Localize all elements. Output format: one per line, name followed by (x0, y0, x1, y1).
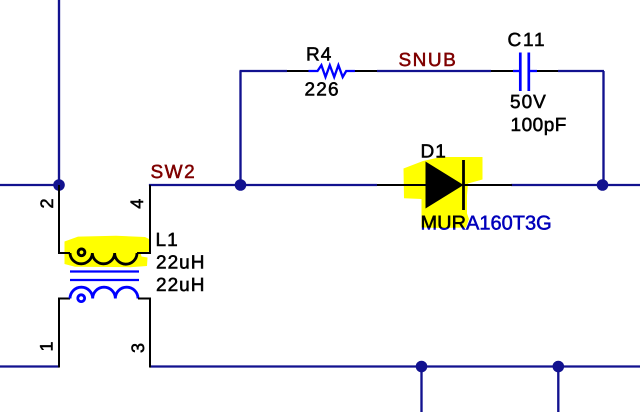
highlight marker over L1 primary (65, 236, 152, 267)
C11 right pin lead (537, 70, 558, 72)
R4 left pin lead (287, 70, 309, 72)
wire stub down from bottom junction 1 (420, 367, 422, 412)
wire top rail to R4 (240, 70, 288, 72)
svg-text:SNUB: SNUB (399, 50, 458, 71)
D1 cathode bar (462, 160, 465, 210)
C11 left plate (519, 53, 522, 92)
node junction right rail (597, 179, 609, 191)
L1 secondary polarity dot (76, 293, 86, 303)
svg-text:4: 4 (127, 199, 147, 209)
resistor R4 (287, 45, 377, 101)
svg-text:226: 226 (305, 80, 340, 101)
svg-text:SW2: SW2 (151, 162, 197, 183)
core line upper (70, 270, 139, 272)
L1 secondary left lead (59, 298, 70, 300)
R4 zigzag body (309, 65, 355, 77)
diode D1 (377, 142, 552, 235)
svg-text:L1: L1 (156, 230, 179, 251)
wire L1 pin 3 vertical (149, 298, 151, 368)
L1 primary left lead (59, 252, 70, 254)
wire from D1 cathode to right edge (511, 184, 640, 186)
core line lower (70, 279, 139, 281)
svg-text:1: 1 (37, 341, 57, 351)
inductor L1 core (70, 272, 139, 281)
wire L1 pin 1 vertical (58, 298, 60, 368)
node junction bottom rail 1 (416, 361, 428, 373)
C11 right plate (527, 53, 530, 92)
svg-text:2: 2 (37, 198, 57, 208)
svg-text:3: 3 (128, 343, 148, 353)
L1 primary polarity dot (77, 248, 87, 258)
svg-text:22uH: 22uH (156, 275, 205, 296)
wire net SW2 vertical from top edge (58, 0, 60, 185)
D1 triangle body (426, 162, 464, 209)
node junction at SW2 left (53, 179, 65, 191)
node junction below R4 branch (235, 179, 247, 191)
wire right vertical from C11 corner (602, 71, 604, 185)
highlight marker over D1 (404, 157, 483, 228)
wire top rail from C11 to corner (558, 70, 604, 72)
C11 left pin lead (491, 70, 513, 72)
L1 labels (156, 230, 206, 296)
wire bottom rail right (150, 365, 640, 367)
wire stub down from bottom junction 2 (557, 367, 559, 412)
wire net SW2 horizontal to D1 (149, 184, 377, 186)
D1 cathode pin lead (463, 184, 512, 186)
L1 secondary coil arcs (70, 287, 138, 298)
inductor L1 primary winding (59, 248, 150, 265)
L1 secondary right lead (138, 298, 150, 300)
C11 right stub (530, 70, 537, 72)
node junction bottom rail 2 (553, 361, 565, 373)
wire net SW2 left horizontal (0, 184, 59, 186)
svg-text:100pF: 100pF (511, 115, 567, 136)
svg-text:R4: R4 (306, 45, 332, 66)
L1 primary right lead (137, 252, 150, 254)
inductor L1 secondary winding (59, 287, 150, 303)
L1 primary coil arcs (70, 253, 137, 264)
wire net SNUB between R4 and C11 (377, 70, 491, 72)
svg-text:22uH: 22uH (156, 253, 205, 274)
capacitor C11 (491, 30, 567, 136)
R4 right pin lead (354, 70, 377, 72)
wire bottom rail left (0, 365, 59, 367)
wire L1 pin 2 vertical (58, 185, 60, 254)
svg-text:50V: 50V (510, 92, 547, 113)
C11 left stub (513, 70, 519, 72)
wire snubber branch vertical to R4 (239, 71, 241, 185)
D1 anode pin lead (377, 184, 427, 186)
svg-text:C11: C11 (508, 30, 547, 51)
wire L1 pin 4 vertical (149, 185, 151, 254)
